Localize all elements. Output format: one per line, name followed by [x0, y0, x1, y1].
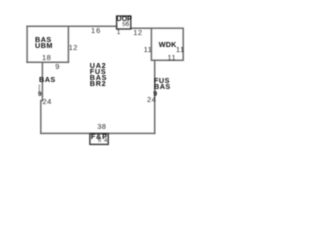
node glyph 9 (right wall jog): [153, 91, 157, 99]
node dim 9 (bottom segment of BAS/UBM): [55, 63, 60, 71]
node dim 12 (top right segment): [133, 29, 142, 37]
node center labels UA2 FUS BAS BR2: [90, 63, 107, 87]
node WDK label: [159, 42, 177, 48]
wire: bottom edge: [41, 132, 155, 134]
node dim 6 4 inside F&P: [98, 139, 108, 145]
node dim 11 (WDK left): [144, 46, 153, 54]
wire: BAS/UBM left wall: [26, 26, 28, 62]
node BAS/UBM label: [35, 37, 53, 49]
node dim 1 (below UOP left corner): [117, 29, 121, 37]
node glyph 9 (left wall jog): [38, 91, 42, 99]
node dim 24 left: [43, 98, 52, 106]
wire: left house wall with jog: [41, 62, 43, 133]
wire: top edge left segment: [27, 25, 117, 27]
wire: BAS/UBM bottom wall: [27, 61, 68, 63]
wire: right house wall: [154, 60, 156, 133]
node dim 16 (top edge): [91, 27, 101, 35]
node dim 11 (WDK bottom): [167, 54, 176, 62]
wire: top edge right segment: [131, 27, 151, 29]
node FUS/BAS right label: [154, 78, 171, 90]
wire: BAS/UBM right wall: [67, 26, 69, 62]
node dim 12 (BAS/UBM right wall): [69, 44, 78, 52]
wire: doubled wall mark left: [38, 85, 40, 92]
node dim 56 inside UOP: [122, 22, 129, 28]
node dim 38 (bottom edge): [97, 123, 106, 131]
node dim 24 right: [147, 96, 156, 104]
component WDK box outline: [151, 28, 183, 60]
node F&P label: [91, 134, 108, 140]
node BAS left label: [39, 77, 56, 83]
node dim 11 (WDK right): [176, 46, 185, 54]
node UOP label: [116, 16, 132, 22]
node dim 18 (BAS/UBM bottom): [42, 54, 51, 62]
component F&P box outline: [90, 134, 108, 145]
component UOP box outline: [117, 16, 131, 29]
